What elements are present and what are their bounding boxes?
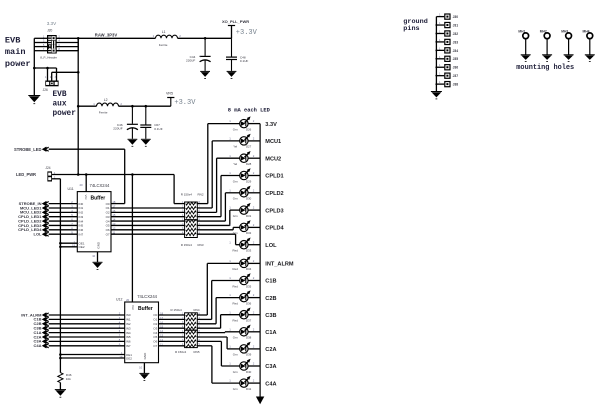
svg-text:U12: U12 <box>116 298 122 302</box>
svg-text:O1: O1 <box>153 318 157 322</box>
junction <box>33 67 36 70</box>
ground main <box>28 95 40 97</box>
ground R46 <box>55 389 66 391</box>
svg-text:STROBE_LED: STROBE_LED <box>14 147 42 152</box>
svg-text:C3A: C3A <box>265 364 276 370</box>
LED D32 CPLD4 <box>229 220 284 235</box>
wire U11 Vcc <box>85 175 87 192</box>
wire left ground bus <box>33 38 35 95</box>
connector J20 8_P_Header <box>40 28 57 59</box>
svg-text:C2B: C2B <box>265 296 276 302</box>
svg-text:J35: J35 <box>453 57 459 61</box>
svg-text:J26: J26 <box>43 88 48 92</box>
svg-text:18: 18 <box>112 200 115 204</box>
svg-text:D26: D26 <box>246 127 252 131</box>
wire LED D40 cathode <box>248 365 260 367</box>
wire MCU_LED2 to U11 IN2 <box>49 211 78 213</box>
pin label U11 O2 <box>106 209 116 215</box>
caption EVB aux power <box>53 91 77 118</box>
svg-text:D29: D29 <box>246 179 252 183</box>
wire C1A to U12 IN4 <box>49 332 125 334</box>
svg-text:C3B: C3B <box>265 313 276 319</box>
svg-text:Red: Red <box>233 284 239 288</box>
capacitor C44 220UF <box>186 38 211 78</box>
LED D29 CPLD1 <box>229 168 283 183</box>
wire U12 O6 to RN <box>159 340 185 342</box>
LED D31 CPLD3 <box>229 203 283 218</box>
wire aux gnd link <box>34 68 56 81</box>
wire C3A to U12 IN6 <box>49 340 125 342</box>
svg-text:O7: O7 <box>153 344 157 348</box>
svg-text:J34: J34 <box>453 49 459 53</box>
svg-text:main: main <box>5 47 26 57</box>
capacitor C67 0.1UF <box>145 106 147 124</box>
wire RN to LED row 2 bank1 <box>197 141 239 208</box>
pin label U12 O2 <box>153 320 163 326</box>
wire RN to LED row 4 bank1 <box>197 176 239 217</box>
LED D28 MCU2 <box>229 151 281 166</box>
svg-text:CPLD4: CPLD4 <box>265 226 284 232</box>
pin label U11 O5 <box>106 222 116 228</box>
caption ground pins <box>403 18 427 33</box>
LED D37 C3B <box>229 308 276 323</box>
wire OE enable bus <box>52 179 60 373</box>
wire U11 O2 to RN <box>111 211 185 213</box>
power flag VR5 <box>166 91 196 106</box>
connector J24 LED_PWR <box>16 166 56 182</box>
wire INT_ALRM to U12 IN0 <box>49 314 125 316</box>
svg-text:220UF: 220UF <box>186 59 195 63</box>
port C2A <box>33 334 48 339</box>
svg-text:Yel: Yel <box>233 162 237 166</box>
svg-text:3.3V: 3.3V <box>47 21 57 26</box>
wire LED D32 cathode <box>248 226 260 228</box>
wire U11 O7 to RN <box>111 233 185 235</box>
LED D33 LOL <box>229 238 277 253</box>
svg-text:8 mA each LED: 8 mA each LED <box>228 107 271 113</box>
capacitor C46 220UF <box>131 106 133 124</box>
svg-text:+3.3V: +3.3V <box>174 99 196 107</box>
pin label U11 O0 <box>106 200 116 206</box>
resistor network RN2/RN3 R 150x4 <box>181 193 204 248</box>
wire LED D26 cathode <box>248 123 260 125</box>
svg-text:RAW_3P3V: RAW_3P3V <box>95 33 118 38</box>
junction <box>77 71 80 74</box>
svg-text:LOL: LOL <box>34 231 43 236</box>
svg-text:Vcc: Vcc <box>84 195 88 201</box>
svg-text:D39: D39 <box>246 353 252 357</box>
wires J20 right pins <box>57 35 79 51</box>
mounting hole MH3 <box>561 29 573 61</box>
svg-text:O2: O2 <box>153 322 157 326</box>
svg-text:D38: D38 <box>246 336 252 340</box>
svg-text:D30: D30 <box>246 197 252 201</box>
port C3B <box>33 326 48 331</box>
svg-text:10: 10 <box>92 254 95 258</box>
svg-text:C1A: C1A <box>265 330 276 336</box>
svg-text:0.1UF: 0.1UF <box>154 127 163 131</box>
port CPLD_LED3 <box>18 223 49 228</box>
svg-text:Red: Red <box>233 319 239 323</box>
svg-text:power: power <box>53 110 77 118</box>
port MCU_LED2 <box>20 210 49 215</box>
wire ground pin bus <box>435 17 437 92</box>
svg-text:C1B: C1B <box>265 279 276 285</box>
svg-text:D32: D32 <box>246 231 252 235</box>
wire LED D27 cathode <box>248 140 260 142</box>
wire U11 O5 to RN <box>111 224 185 226</box>
wire LED D35 cathode <box>248 280 260 282</box>
wires J20 left pins <box>34 35 47 51</box>
svg-text:Ferrite: Ferrite <box>99 111 108 115</box>
wire MCU_LED1 to U11 IN1 <box>49 207 78 209</box>
wire RN to LED row 7 bank1 <box>197 227 239 229</box>
wire RN to LED row 5 bank1 <box>197 193 239 221</box>
pin label U12 O4 <box>153 329 163 335</box>
svg-text:IN5: IN5 <box>126 335 131 339</box>
mounting hole MH2 <box>540 29 552 61</box>
svg-text:CPLD2: CPLD2 <box>265 191 283 197</box>
svg-text:Grn: Grn <box>233 353 238 357</box>
svg-text:power: power <box>5 59 31 69</box>
wire RN to LED row 8 bank2 <box>197 346 239 383</box>
svg-text:Grn: Grn <box>233 387 238 391</box>
svg-text:220UF: 220UF <box>113 127 122 131</box>
svg-text:C2A: C2A <box>265 347 276 353</box>
wire LED D28 cathode <box>248 157 260 159</box>
svg-text:R 150x4: R 150x4 <box>181 243 193 247</box>
wire LED common rail <box>259 124 261 397</box>
wire U12 O7 to RN <box>159 345 185 347</box>
wire RN to LED row 4 bank2 <box>197 315 239 329</box>
wire C2A to U12 IN5 <box>49 336 125 338</box>
svg-text:R 150x4: R 150x4 <box>171 308 183 312</box>
port CPLD_LED2 <box>18 218 49 223</box>
wire LED_PWR <box>52 174 174 176</box>
LED D26 3.3V <box>229 116 277 131</box>
svg-text:MCU2: MCU2 <box>265 156 281 162</box>
svg-text:RN2: RN2 <box>198 193 204 197</box>
junction <box>59 242 62 245</box>
wire U12 GND pin <box>139 363 144 374</box>
pin label U12 O7 <box>153 342 163 348</box>
ground pinbus <box>431 91 442 93</box>
wire to XO_PLL_PWR flag <box>231 26 233 39</box>
svg-text:EVB: EVB <box>53 91 67 99</box>
svg-text:IN7: IN7 <box>126 344 131 348</box>
capacitor C48 0.1UF <box>226 38 248 78</box>
wire U12 O0 to RN <box>159 314 185 316</box>
wire C1B to U12 IN1 <box>49 318 125 320</box>
wire R46 to ground <box>59 383 61 390</box>
connector J38 ground pin <box>436 80 458 87</box>
svg-text:D36: D36 <box>246 301 252 305</box>
op-amp U11 74LCX244 buffer <box>68 183 112 252</box>
wire STROBE_IN to U11 IN0 <box>49 203 78 205</box>
svg-text:INT_ALRM: INT_ALRM <box>265 262 294 268</box>
svg-text:GND: GND <box>96 241 100 249</box>
svg-text:GND: GND <box>143 352 147 360</box>
wire to RN1 pin1 <box>174 175 185 204</box>
svg-text:D28: D28 <box>246 162 252 166</box>
pin label U11 O7 <box>106 231 116 237</box>
svg-text:O6: O6 <box>153 340 157 344</box>
svg-text:L1: L1 <box>162 30 166 34</box>
svg-text:J31: J31 <box>453 23 459 27</box>
wire CPLD_LED4 to U11 IN6 <box>49 229 78 231</box>
junction <box>435 83 437 85</box>
wire RN to LED row 5 bank2 <box>197 331 239 334</box>
wire U11 O1 to RN <box>111 207 185 209</box>
svg-text:EVB: EVB <box>5 36 20 46</box>
svg-text:R 150x4: R 150x4 <box>175 350 187 354</box>
wire U12 O1 to RN <box>159 318 185 320</box>
wire RN to LED row 3 bank1 <box>197 158 239 212</box>
wire power vertical <box>77 38 79 174</box>
svg-text:J36: J36 <box>453 66 459 70</box>
power flag XO_PLL_PWR <box>222 19 258 37</box>
LED D27 MCU1 <box>229 134 281 149</box>
junction <box>59 353 62 356</box>
svg-text:L2: L2 <box>104 98 108 102</box>
svg-text:Grn: Grn <box>233 336 238 340</box>
svg-text:D31: D31 <box>246 214 252 218</box>
svg-text:IN4: IN4 <box>126 331 131 335</box>
svg-text:OE2: OE2 <box>126 357 132 361</box>
pin label U11 O4 <box>106 218 116 224</box>
svg-text:Red: Red <box>233 267 239 271</box>
svg-text:aux: aux <box>53 101 67 109</box>
junction <box>204 37 207 40</box>
svg-text:IN7: IN7 <box>79 232 84 236</box>
svg-text:LOL: LOL <box>265 243 277 249</box>
svg-text:O5: O5 <box>153 335 157 339</box>
pin label U11 O1 <box>106 204 116 210</box>
wire U11 O6 to RN <box>111 229 185 231</box>
LED D41 C4A <box>229 376 276 391</box>
wire LOL to U11 IN7 <box>49 233 78 235</box>
wire CPLD_LED3 to U11 IN5 <box>49 224 78 226</box>
connector J30 ground pin <box>436 13 458 20</box>
pin label U12 O0 <box>153 312 163 318</box>
svg-text:Buffer: Buffer <box>91 195 106 201</box>
inductor L2 <box>93 98 122 115</box>
junction <box>77 105 80 108</box>
wire RN to LED row 6 bank1 <box>197 210 239 225</box>
wire RN to LED row 7 bank2 <box>197 341 239 366</box>
wire RN to LED row 2 bank2 <box>197 281 239 320</box>
wire C3B to U12 IN3 <box>49 327 125 329</box>
svg-text:IN2: IN2 <box>126 322 131 326</box>
junction <box>77 37 80 40</box>
svg-text:D37: D37 <box>246 319 252 323</box>
connector J33 ground pin <box>436 38 458 45</box>
svg-text:IN0: IN0 <box>126 313 131 317</box>
wire U12 O2 to RN <box>159 323 185 325</box>
wire RN to LED row 1 bank1 <box>197 124 239 204</box>
svg-text:J37: J37 <box>453 74 459 78</box>
port STROBE_IN <box>19 201 49 206</box>
connector J34 ground pin <box>436 46 458 53</box>
svg-text:O7: O7 <box>106 232 110 236</box>
svg-text:Grn: Grn <box>233 197 238 201</box>
mounting hole MH4 <box>583 29 595 61</box>
wire U12 O3 to RN <box>159 327 185 329</box>
svg-text:Grn: Grn <box>233 231 238 235</box>
pin label U11 O3 <box>106 213 116 219</box>
svg-text:Buffer: Buffer <box>138 306 153 312</box>
wire LED D29 cathode <box>248 175 260 177</box>
junction <box>77 173 80 176</box>
junction <box>435 24 437 26</box>
pin label U12 O1 <box>153 316 163 322</box>
connector J32 ground pin <box>436 29 458 36</box>
wire LED D41 cathode <box>248 382 260 384</box>
junction <box>46 67 49 70</box>
port C3A <box>33 339 48 344</box>
junction <box>435 49 437 51</box>
svg-text:Grn: Grn <box>233 370 238 374</box>
junction <box>435 66 437 68</box>
svg-text:IN6: IN6 <box>126 340 131 344</box>
svg-text:3.3V: 3.3V <box>265 122 277 128</box>
connector J35 ground pin <box>436 55 458 62</box>
svg-text:J20: J20 <box>47 28 52 32</box>
junction <box>131 105 134 108</box>
svg-text:O4: O4 <box>153 331 157 335</box>
junction <box>435 41 437 43</box>
svg-text:LED_PWR: LED_PWR <box>16 172 36 177</box>
port STROBE_LED <box>14 147 49 152</box>
pin labels U12 OE <box>119 351 147 360</box>
wire U11 OE1 <box>60 242 77 244</box>
connector J31 ground pin <box>436 21 458 28</box>
svg-text:CPLD3: CPLD3 <box>265 208 283 214</box>
svg-text:C4A: C4A <box>265 381 276 387</box>
LED D36 C2B <box>229 290 276 305</box>
svg-text:Grn: Grn <box>233 127 238 131</box>
svg-text:Red: Red <box>233 301 239 305</box>
svg-text:D40: D40 <box>246 370 252 374</box>
svg-text:pins: pins <box>403 25 419 33</box>
ground U12 <box>139 372 149 374</box>
LED D38 C1A <box>229 325 276 340</box>
svg-text:J30: J30 <box>453 15 459 19</box>
wire U12 Vcc <box>131 175 133 303</box>
svg-text:U11: U11 <box>68 187 74 191</box>
svg-text:J24: J24 <box>45 166 50 170</box>
resistor network RN4/RN5 R 150x4 <box>171 308 201 354</box>
resistor R46 10k <box>58 373 72 383</box>
wire U11 O4 to RN <box>111 220 185 222</box>
wire U12 OE2 <box>60 357 124 359</box>
svg-text:mounting holes: mounting holes <box>516 64 574 72</box>
LED D30 CPLD2 <box>229 186 283 201</box>
pin label U11 O6 <box>106 226 116 232</box>
port C1B <box>33 317 48 322</box>
svg-text:Red: Red <box>233 249 239 253</box>
svg-text:20: 20 <box>126 298 130 302</box>
svg-text:Ferrite: Ferrite <box>159 43 168 47</box>
wire U12 O4 to RN <box>159 332 185 334</box>
svg-text:R 150x4: R 150x4 <box>181 193 193 197</box>
svg-text:74LCX244: 74LCX244 <box>137 294 157 299</box>
wire LED D39 cathode <box>248 348 260 350</box>
wire RN to LED row 1 bank2 <box>197 263 239 315</box>
port CPLD_LED4 <box>18 227 49 232</box>
wire RN to LED row 8 bank1 <box>197 234 239 245</box>
ground arrow rail <box>256 397 264 405</box>
svg-text:RN3: RN3 <box>198 243 204 247</box>
svg-text:RN4: RN4 <box>194 308 200 312</box>
svg-text:XO_PLL_PWR: XO_PLL_PWR <box>222 19 249 24</box>
port C1A <box>33 330 48 335</box>
svg-text:8_P_Header: 8_P_Header <box>40 55 57 59</box>
svg-text:IN1: IN1 <box>126 318 131 322</box>
svg-text:O3: O3 <box>153 326 157 330</box>
connector J36 ground pin <box>436 63 458 70</box>
port INT_ALRM <box>21 312 48 317</box>
wire RN to LED row 3 bank2 <box>197 298 239 324</box>
svg-text:74LCX244: 74LCX244 <box>90 183 110 188</box>
wire RAW_3P3V rail <box>78 38 231 50</box>
wire STROBE_LED <box>49 149 125 203</box>
svg-text:0.1UF: 0.1UF <box>240 59 249 63</box>
op-amp U12 74LCX244 buffer <box>116 294 159 363</box>
svg-text:D41: D41 <box>246 387 252 391</box>
svg-text:MCU1: MCU1 <box>265 139 281 145</box>
wire U11 OE2 <box>60 246 77 248</box>
svg-text:Vcc: Vcc <box>131 305 135 311</box>
svg-text:D33: D33 <box>246 249 252 253</box>
port C2B <box>33 321 48 326</box>
wire U12 OE1 <box>60 354 124 356</box>
wire LED D38 cathode <box>248 331 260 333</box>
svg-text:+3.3V: +3.3V <box>236 29 258 37</box>
svg-text:VR5: VR5 <box>166 91 173 95</box>
junction <box>435 58 437 60</box>
svg-text:D27: D27 <box>246 145 252 149</box>
svg-text:C4A: C4A <box>33 343 41 348</box>
svg-text:D35: D35 <box>246 284 252 288</box>
LED D35 C1B <box>229 273 276 288</box>
wire LED D34 cathode <box>248 262 260 264</box>
svg-text:Grn: Grn <box>233 179 238 183</box>
pin label U12 O5 <box>153 334 163 340</box>
pin label U12 O3 <box>153 325 163 331</box>
caption EVB main power <box>5 36 31 69</box>
pin labels U11 OE <box>72 240 100 249</box>
svg-text:CPLD1: CPLD1 <box>265 174 283 180</box>
wire LED D37 cathode <box>248 314 260 316</box>
svg-text:J32: J32 <box>453 32 459 36</box>
wire LED D33 cathode <box>248 244 260 246</box>
junction <box>435 32 437 34</box>
wire C2B to U12 IN2 <box>49 323 125 325</box>
port LOL <box>34 231 49 236</box>
port C4A <box>33 343 48 348</box>
wire U11 O3 to RN <box>111 216 185 218</box>
svg-text:10k: 10k <box>66 377 71 381</box>
wire U12 O5 to RN <box>159 336 185 338</box>
svg-text:Yel: Yel <box>233 145 237 149</box>
port CPLD_LED1 <box>18 214 49 219</box>
connector J26 EVB aux <box>43 76 59 92</box>
svg-text:O0: O0 <box>153 313 157 317</box>
wire aux rail <box>78 105 171 107</box>
wire CPLD_LED2 to U11 IN4 <box>49 220 78 222</box>
wire LED D31 cathode <box>248 209 260 211</box>
